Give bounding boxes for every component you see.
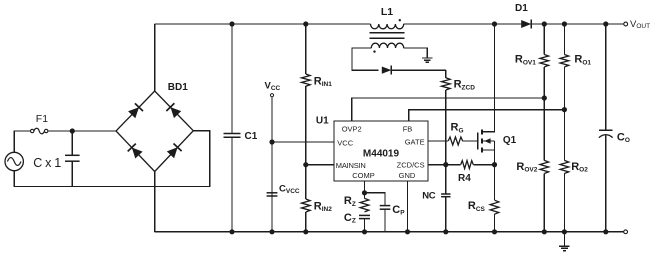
label L1 (381, 6, 393, 18)
node MAINSIN junction (303, 162, 308, 167)
phase dot L1 secondary (373, 50, 375, 52)
svg-text:BD1: BD1 (168, 82, 188, 93)
resistor R4 (461, 161, 474, 169)
label R4 (458, 173, 471, 184)
inductor L1 secondary winding (371, 43, 403, 48)
pin label COMP (352, 171, 375, 180)
capacitor CZ (359, 215, 370, 231)
op-amp U1 M44019 box (334, 121, 428, 181)
wire GATE to RG (428, 140, 448, 142)
node CVCC bottom (269, 229, 274, 234)
node C1 top (229, 21, 234, 26)
wire GND pin to rail (407, 181, 409, 232)
svg-text:R4: R4 (458, 173, 471, 184)
resistor RZ (360, 193, 369, 212)
wire bridge top vertex to top rail (154, 24, 156, 91)
svg-text:ZCD/CS: ZCD/CS (397, 161, 425, 170)
svg-text:COMP: COMP (352, 171, 375, 180)
label CVCC (279, 184, 300, 195)
resistor RG (448, 137, 463, 145)
pin label ZCDCS (397, 161, 425, 170)
resistor RIN1 (302, 74, 311, 86)
node FB-RO1 junction (562, 107, 567, 112)
ground L1 secondary (422, 58, 433, 62)
node NC bottom (443, 229, 448, 234)
pin label GND (399, 171, 416, 180)
resistor RO1 (560, 24, 569, 160)
bridge diode D-bottomright (167, 143, 182, 158)
node RZ bottom (362, 229, 367, 234)
pin label VCC (337, 138, 353, 147)
pin label MAINSIN (336, 161, 366, 170)
bridge diode D-bottomleft (128, 144, 143, 159)
wire OVP2 to ROV1 (352, 98, 545, 121)
svg-text:FB: FB (403, 125, 413, 134)
diode zcd aux (382, 66, 392, 75)
svg-text:M44019: M44019 (363, 149, 400, 160)
label RO2 (571, 161, 588, 174)
label RCS (468, 200, 486, 213)
wire VCC vertical (271, 97, 273, 232)
capacitor Cx1 (65, 131, 80, 187)
wire ac source bottom return (14, 131, 209, 187)
svg-text:C1: C1 (245, 131, 258, 142)
capacitor CO (599, 24, 613, 232)
label RG (451, 122, 464, 135)
fuse F1 (31, 128, 48, 134)
label U1 (316, 115, 329, 126)
label ROV1 (515, 54, 536, 67)
wire top rail (rectified bus) (155, 23, 624, 25)
label C1 (245, 131, 258, 142)
svg-text:MAINSIN: MAINSIN (336, 161, 366, 170)
label M44019 (363, 149, 400, 160)
wire VCC to IC pin (272, 141, 334, 143)
pin label FB (403, 125, 413, 134)
transistor Q1 gate bar (477, 133, 479, 150)
label VCC supply (265, 81, 281, 92)
label Q1 (503, 135, 517, 146)
transistor Q1 channel (481, 130, 483, 153)
label D1 (515, 3, 528, 14)
pin label OVP2 (342, 125, 362, 134)
wire L1 secondary left (352, 48, 379, 70)
label RO1 (574, 54, 591, 67)
node ROV2 bottom (542, 229, 547, 234)
label RIN1 (314, 75, 332, 88)
bridge rectifier BD1 outline (116, 91, 193, 172)
transistor Q1 body arrow (483, 138, 495, 143)
bridge diode D-topright (166, 103, 181, 118)
wire RIN branch (305, 24, 307, 232)
node RO1 top (562, 21, 567, 26)
wire diode to RZCD (391, 69, 445, 71)
capacitor C1 (224, 24, 241, 232)
resistor ROV1 (540, 24, 549, 160)
svg-text:GATE: GATE (405, 137, 425, 146)
node RO2 bottom (562, 229, 567, 234)
svg-text:F1: F1 (36, 113, 48, 125)
label CO (617, 131, 630, 144)
label BD1 (168, 82, 188, 93)
node GND bottom (405, 229, 410, 234)
terminal return (624, 230, 628, 234)
node ROV1 top (542, 21, 547, 26)
phase dot L1 primary (399, 19, 401, 21)
label CP (392, 204, 405, 217)
capacitor CVCC (267, 193, 278, 196)
resistor ROV2 (540, 160, 549, 231)
svg-text:Q1: Q1 (503, 135, 517, 146)
node VCC pin junction (269, 139, 274, 144)
label ROV2 (516, 161, 537, 174)
node Q1 drain on rail (492, 21, 497, 26)
svg-text:U1: U1 (316, 115, 329, 126)
capacitor CP (380, 206, 391, 232)
wire bottom rail (return bus) (155, 231, 624, 233)
svg-text:OVP2: OVP2 (342, 125, 362, 134)
wire COMP pin (364, 181, 366, 193)
label F1 (36, 113, 48, 125)
svg-text:GND: GND (399, 171, 416, 180)
ground output (559, 232, 570, 251)
svg-text:C x 1: C x 1 (33, 156, 61, 170)
node RCS bottom (492, 229, 497, 234)
label RIN2 (314, 200, 332, 213)
node COMP junction (362, 190, 367, 195)
resistor RZCD (442, 70, 451, 165)
svg-text:NC: NC (422, 190, 436, 201)
bridge diode D-topleft (128, 103, 143, 118)
resistor RIN2 (302, 199, 311, 212)
wire ZCDCS to R4 (428, 164, 461, 166)
label VOUT (630, 19, 650, 30)
transistor Q1 drain stub (482, 24, 495, 132)
node CO bottom (603, 229, 608, 234)
terminal VOUT (624, 22, 628, 26)
core L1 (370, 33, 405, 38)
wire fuse to bridge left vertex (48, 130, 116, 132)
node source junction (492, 162, 497, 167)
wire FB to RO1 (409, 110, 565, 121)
terminal VCC (270, 94, 273, 97)
node CO top (603, 21, 608, 26)
label RZCD (454, 79, 476, 92)
capacitor C-NC (441, 165, 450, 232)
wire MAINSIN to IC (306, 164, 334, 166)
label RZ (344, 195, 356, 208)
node RIN1 top (303, 21, 308, 26)
svg-text:L1: L1 (381, 6, 393, 18)
node junction Cx1 top (70, 128, 75, 133)
wire R4 to source node (473, 164, 494, 166)
node ZCD junction (443, 162, 448, 167)
label NC (422, 190, 436, 201)
svg-text:VCC: VCC (337, 138, 353, 147)
svg-text:D1: D1 (515, 3, 528, 14)
transistor Q1 source stub (482, 141, 495, 165)
ac source G1 (5, 152, 23, 170)
wire ac source top to fuse (14, 131, 30, 152)
pin label GATE (405, 137, 425, 146)
wire RG to Q1 gate (463, 140, 478, 142)
inductor L1 primary winding (371, 24, 404, 29)
resistor RCS (490, 165, 499, 232)
label CZ (344, 212, 356, 225)
wire L1 secondary right to ground (404, 48, 428, 58)
resistor RO2 (560, 160, 569, 231)
wire COMP to CP (365, 193, 386, 206)
wire bridge bottom vertex to bottom rail (154, 172, 156, 232)
node C1 bottom (229, 229, 234, 234)
diode D1 (521, 20, 531, 29)
node OVP2-ROV1 junction (542, 95, 547, 100)
node RIN2 bottom (303, 229, 308, 234)
label C x 1 (33, 156, 61, 170)
